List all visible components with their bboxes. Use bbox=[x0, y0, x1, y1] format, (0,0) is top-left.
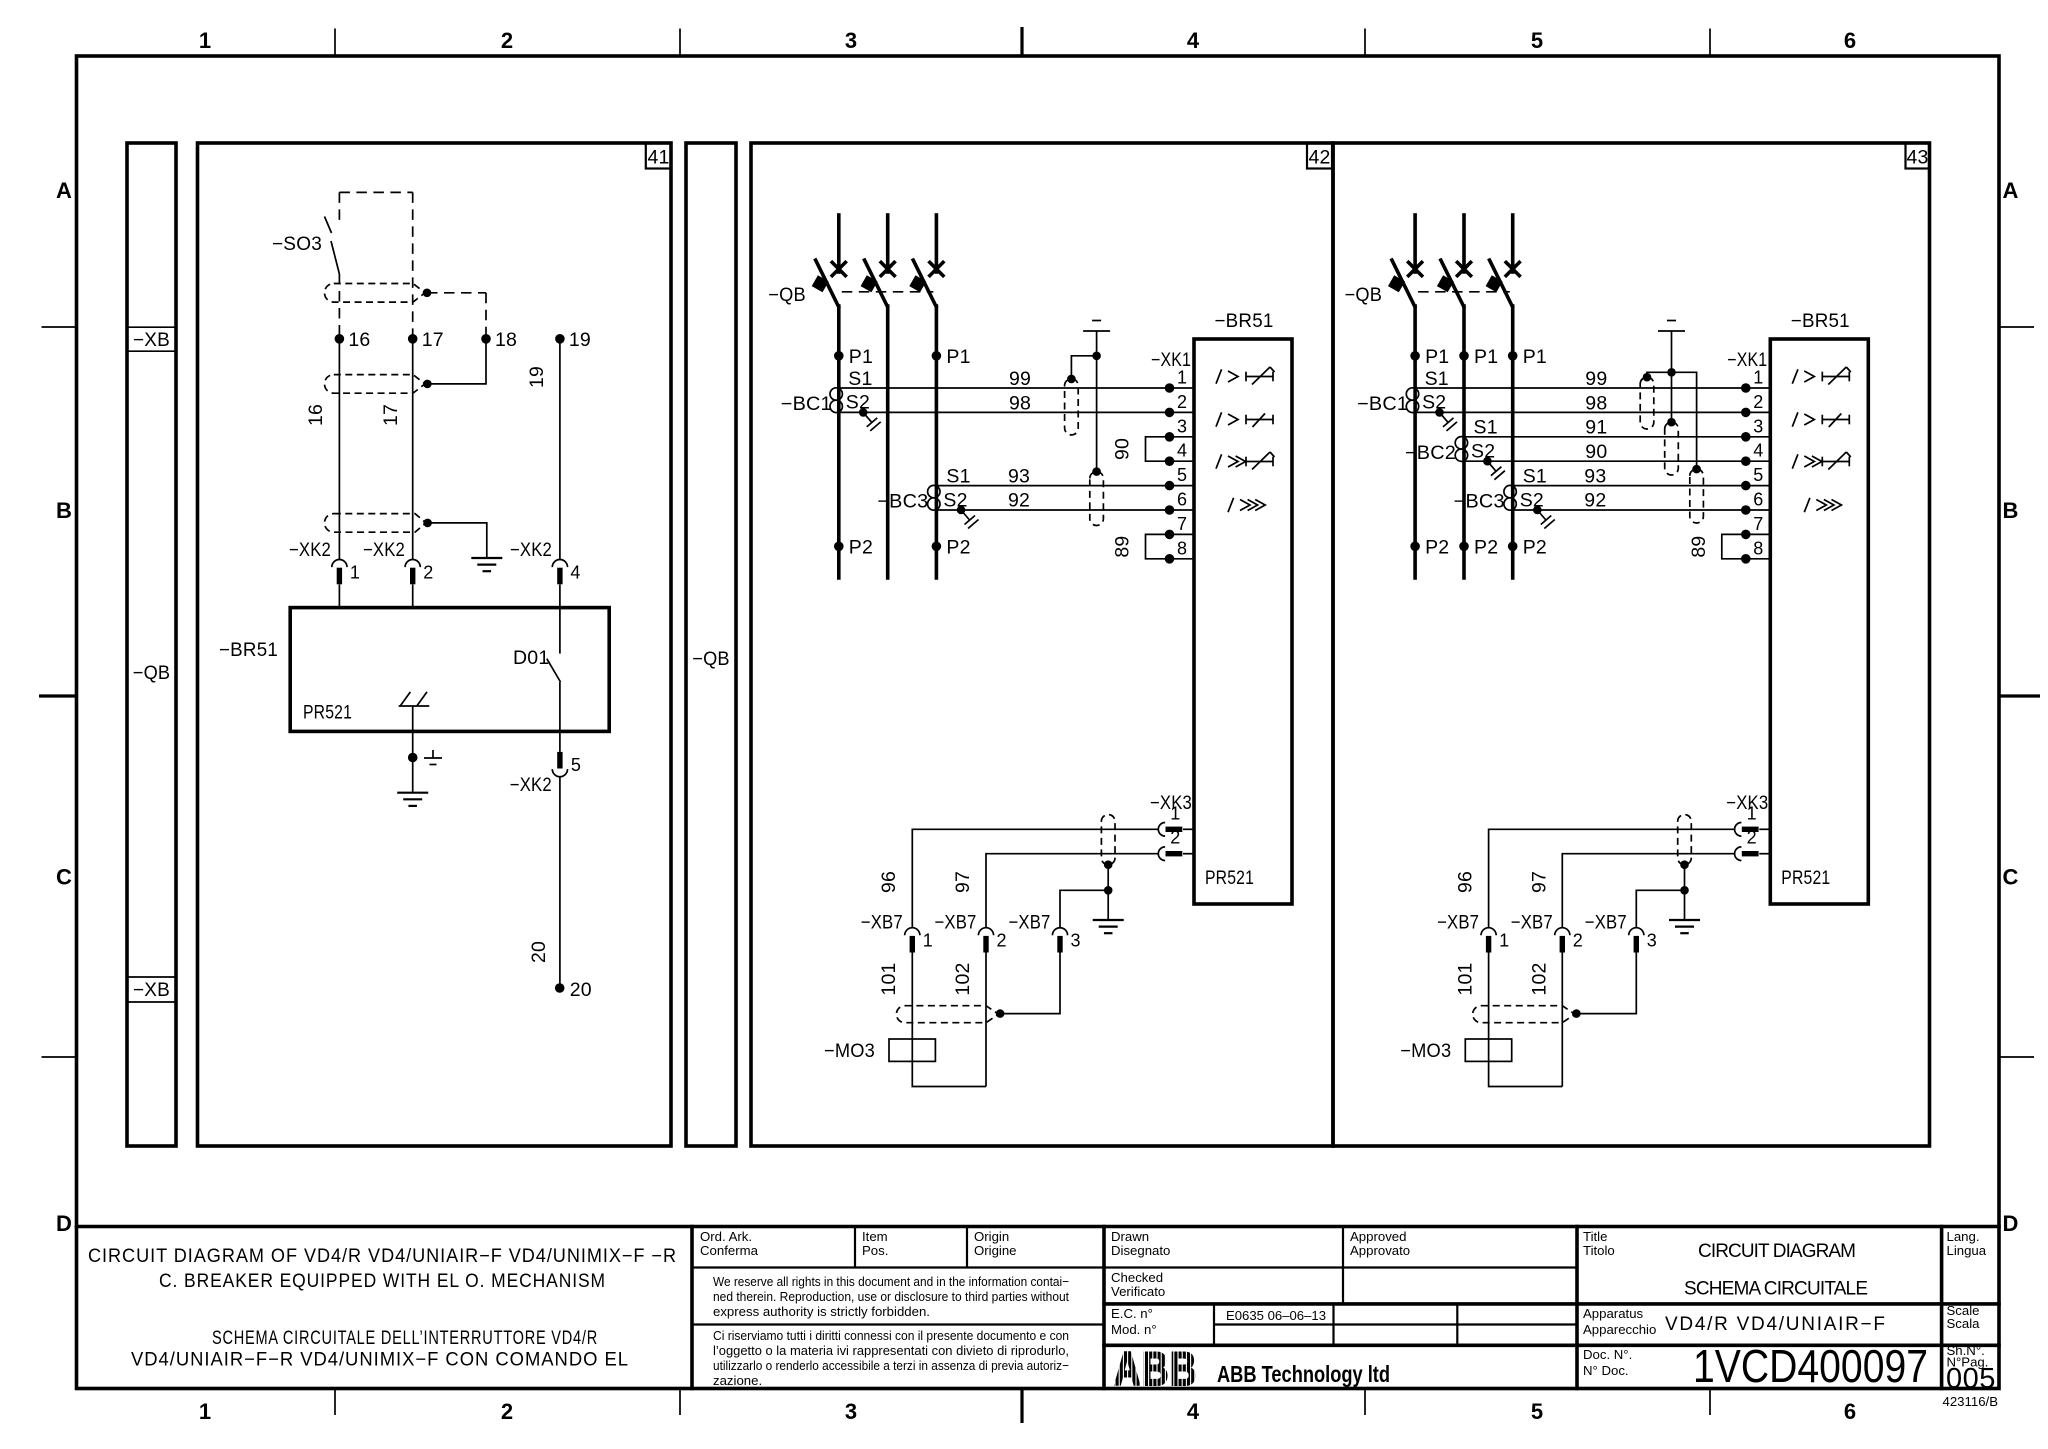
svg-text:Approvato: Approvato bbox=[1350, 1243, 1410, 1258]
title block bbox=[77, 1225, 2000, 1229]
svg-text:102: 102 bbox=[1528, 962, 1550, 995]
wire 16 bbox=[338, 339, 340, 560]
svg-text:E0635 06–06–13: E0635 06–06–13 bbox=[1226, 1308, 1326, 1323]
svg-text:16: 16 bbox=[305, 404, 327, 426]
svg-text:43: 43 bbox=[1906, 147, 1928, 169]
junction on wire 98 with earth mark bbox=[859, 408, 868, 417]
svg-text:6: 6 bbox=[1753, 490, 1763, 510]
earth symbol bbox=[471, 557, 502, 559]
svg-text:005: 005 bbox=[1946, 1363, 1996, 1395]
XK3 pin 1 bbox=[1735, 823, 1742, 837]
XK1 pin 3 bbox=[1746, 436, 1771, 438]
node P2 bbox=[932, 542, 942, 552]
svg-text:SCHEMA CIRCUITALE DELL’INTER: SCHEMA CIRCUITALE DELL’INTERRUTTORE VD4/… bbox=[212, 1328, 598, 1349]
svg-text:ABB Technology ltd: ABB Technology ltd bbox=[1217, 1361, 1390, 1387]
cable screen around 93/92 bbox=[1690, 469, 1704, 523]
frame center tick bottom bbox=[1020, 1389, 1023, 1424]
svg-text:P2: P2 bbox=[849, 537, 873, 559]
svg-text:89: 89 bbox=[1688, 536, 1710, 558]
svg-text:B: B bbox=[56, 498, 72, 523]
svg-text:Origin: Origin bbox=[974, 1229, 1009, 1244]
svg-text:−QB: −QB bbox=[768, 284, 806, 306]
svg-text:P2: P2 bbox=[1425, 537, 1449, 559]
wire 96 (XK3:1 to XB7:1) bbox=[912, 829, 1158, 927]
node P2 bbox=[1459, 542, 1469, 552]
node P1 bbox=[1459, 351, 1469, 361]
junction to XB7:3 bbox=[1104, 886, 1113, 895]
svg-text:P1: P1 bbox=[1523, 346, 1547, 368]
svg-text:D01: D01 bbox=[513, 647, 549, 669]
svg-text:96: 96 bbox=[1454, 871, 1476, 893]
svg-text:5: 5 bbox=[1531, 28, 1543, 53]
svg-text:93: 93 bbox=[1008, 466, 1030, 488]
opening release coil MO3 bbox=[889, 1039, 935, 1061]
earth symbol (screen earthing) bbox=[1658, 330, 1685, 332]
cable screen around 96/97 bbox=[1678, 815, 1692, 865]
earth symbol (screen earthing) bbox=[1083, 330, 1110, 332]
svg-text:E.C. n°: E.C. n° bbox=[1111, 1306, 1153, 1321]
svg-text:3: 3 bbox=[845, 1399, 857, 1424]
wire MO3 to 102 bbox=[912, 1061, 986, 1086]
svg-text:3: 3 bbox=[1071, 931, 1081, 951]
frame tick right y=327 bbox=[1999, 326, 2034, 328]
svg-text:101: 101 bbox=[878, 962, 900, 995]
dashed linkage frame bbox=[339, 191, 412, 193]
cable screen around 99/98 bbox=[1065, 379, 1079, 435]
svg-text:−XB: −XB bbox=[133, 329, 170, 351]
frame of sheet-zone 43 bbox=[1333, 143, 1930, 1146]
breaker pole of QB at x=936.4 bbox=[935, 215, 939, 272]
svg-text:20: 20 bbox=[570, 979, 592, 1001]
cable screen around 101/102 bbox=[896, 1006, 998, 1023]
svg-text:Disegnato: Disegnato bbox=[1111, 1243, 1170, 1258]
svg-text:−BC1: −BC1 bbox=[781, 393, 832, 415]
current transformer BC1 bbox=[1406, 388, 1418, 400]
node P2 bbox=[1508, 542, 1518, 552]
current transformer BC1 bbox=[830, 388, 842, 400]
release/relay box BR51 with PR521 bbox=[290, 608, 609, 732]
svg-text:92: 92 bbox=[1008, 490, 1030, 512]
wire 19 bbox=[559, 339, 561, 560]
svg-text:1VCD400097: 1VCD400097 bbox=[1693, 1340, 1928, 1392]
cable screen around 96/97 bbox=[1101, 815, 1115, 865]
svg-text:1: 1 bbox=[1177, 368, 1187, 388]
node 19 bbox=[555, 334, 565, 344]
XK1 pin 1 bbox=[1170, 387, 1195, 389]
svg-text:4: 4 bbox=[1177, 441, 1187, 461]
mechanical linkage (dashed) bbox=[842, 291, 934, 293]
svg-text:P1: P1 bbox=[1425, 346, 1449, 368]
svg-text:Origine: Origine bbox=[974, 1243, 1017, 1258]
node 17 bbox=[408, 334, 418, 344]
svg-text:S2: S2 bbox=[1471, 441, 1495, 463]
svg-text:Mod. n°: Mod. n° bbox=[1111, 1322, 1157, 1337]
svg-text:1: 1 bbox=[923, 931, 933, 951]
junction on wire 98 with earth mark bbox=[1435, 408, 1444, 417]
wire 99 (BC1 S1 to XK1:1) bbox=[839, 387, 1170, 389]
svg-text:4: 4 bbox=[1187, 1399, 1200, 1424]
svg-text:1: 1 bbox=[1747, 803, 1757, 823]
svg-text:5: 5 bbox=[571, 755, 581, 775]
frame tick left y=1057 bbox=[42, 1056, 77, 1058]
svg-text:−QB: −QB bbox=[692, 648, 730, 670]
wire 101 bbox=[1488, 953, 1490, 1040]
svg-text:6: 6 bbox=[1177, 490, 1187, 510]
svg-text:l’oggetto o la materia ivi: l’oggetto o la materia ivi rappresentati… bbox=[713, 1343, 1069, 1358]
svg-text:Doc. N°.: Doc. N°. bbox=[1583, 1347, 1632, 1362]
svg-text:2: 2 bbox=[997, 931, 1007, 951]
svg-text:ned therein. Reproduction,: ned therein. Reproduction, use or disclo… bbox=[713, 1289, 1069, 1304]
svg-text:7: 7 bbox=[1753, 514, 1763, 534]
svg-text:3: 3 bbox=[1753, 416, 1763, 436]
node P1 bbox=[834, 351, 844, 361]
svg-text:A: A bbox=[56, 178, 72, 203]
svg-text:−XK2: −XK2 bbox=[510, 774, 552, 796]
mechanical coupling loop (middle) bbox=[325, 375, 426, 394]
node P1 bbox=[1508, 351, 1518, 361]
PE junction below BR51 bbox=[408, 753, 418, 763]
terminal XK2 pin 5 bbox=[557, 752, 562, 769]
busbar column QB (middle) bbox=[686, 143, 736, 1146]
busbar column XB/QB bbox=[127, 143, 176, 1146]
svg-text:P2: P2 bbox=[1523, 537, 1547, 559]
svg-text:ABB: ABB bbox=[1114, 1342, 1198, 1395]
svg-text:5: 5 bbox=[1531, 1399, 1543, 1424]
svg-text:423116/B: 423116/B bbox=[1943, 1394, 1999, 1409]
svg-text:PR521: PR521 bbox=[303, 702, 352, 724]
svg-text:Apparecchio: Apparecchio bbox=[1583, 1322, 1656, 1337]
XK3 pin 2 bbox=[1158, 847, 1165, 861]
svg-text:Verificato: Verificato bbox=[1111, 1284, 1165, 1299]
XK1 pin 7 bbox=[1746, 533, 1771, 535]
frame tick bottom x=1365 bbox=[1364, 1389, 1366, 1416]
protection relay BR51 (PR521) bbox=[1770, 339, 1868, 904]
svg-text:Apparatus: Apparatus bbox=[1583, 1306, 1644, 1321]
svg-text:−QB: −QB bbox=[1345, 284, 1383, 306]
svg-text:−QB: −QB bbox=[133, 662, 171, 684]
wire 90 (BC2 S2 to XK1:4) bbox=[1464, 460, 1746, 462]
svg-text:S1: S1 bbox=[1523, 466, 1547, 488]
svg-text:2: 2 bbox=[1170, 828, 1180, 848]
frame of sheet-zone 42 bbox=[751, 143, 1333, 1146]
svg-text:17: 17 bbox=[380, 404, 402, 426]
XK1 pin 2 bbox=[1170, 411, 1195, 413]
svg-text:97: 97 bbox=[952, 871, 974, 893]
svg-text:−XB: −XB bbox=[133, 979, 170, 1001]
XK3 pin 2 bbox=[1735, 847, 1742, 861]
svg-text:8: 8 bbox=[1177, 538, 1187, 558]
XK1 pin 2 bbox=[1746, 411, 1771, 413]
protection relay BR51 (PR521) bbox=[1194, 339, 1292, 904]
frame of sheet-zone 41 bbox=[198, 143, 672, 1146]
svg-text:20: 20 bbox=[528, 941, 550, 963]
svg-text:Lingua: Lingua bbox=[1947, 1243, 1987, 1258]
svg-text:A: A bbox=[2003, 178, 2019, 203]
svg-text:−SO3: −SO3 bbox=[272, 233, 322, 255]
breaker pole of QB at x=1415.1 bbox=[1413, 215, 1417, 272]
svg-text:−XB7: −XB7 bbox=[935, 912, 977, 934]
svg-text:S1: S1 bbox=[1474, 417, 1498, 439]
jumper XK1 3-4, wire 90 bbox=[1146, 437, 1170, 461]
svg-text:90: 90 bbox=[1112, 438, 1134, 460]
svg-text:1: 1 bbox=[350, 563, 360, 583]
svg-text:1: 1 bbox=[1499, 931, 1509, 951]
node 20 bbox=[555, 983, 565, 993]
cable screen around 93/92 bbox=[1090, 472, 1104, 526]
XK1 pin 3 bbox=[1170, 436, 1195, 438]
svg-text:S1: S1 bbox=[946, 466, 970, 488]
cell XB upper bbox=[127, 326, 176, 328]
svg-text:S1: S1 bbox=[1425, 368, 1449, 390]
svg-text:−BR51: −BR51 bbox=[1215, 310, 1274, 332]
breaker pole of QB at x=1512.6999999999998 bbox=[1511, 215, 1515, 272]
wire 97 (XK3:2 to XB7:2) bbox=[986, 854, 1158, 928]
breaker pole of QB at x=838.8 bbox=[837, 215, 841, 272]
svg-text:P2: P2 bbox=[1474, 537, 1498, 559]
svg-text:−MO3: −MO3 bbox=[1400, 1040, 1451, 1062]
svg-text:Pos.: Pos. bbox=[862, 1243, 888, 1258]
svg-text:P1: P1 bbox=[946, 346, 970, 368]
svg-text:42: 42 bbox=[1308, 147, 1330, 169]
svg-text:97: 97 bbox=[1528, 871, 1550, 893]
svg-text:−BC3: −BC3 bbox=[877, 491, 928, 513]
svg-text:41: 41 bbox=[647, 147, 669, 169]
svg-text:5: 5 bbox=[1753, 465, 1763, 485]
svg-text:−XB7: −XB7 bbox=[861, 912, 903, 934]
svg-text:zazione.: zazione. bbox=[713, 1373, 762, 1388]
frame tick top x=1365 bbox=[1364, 29, 1366, 57]
svg-text:Checked: Checked bbox=[1111, 1270, 1163, 1285]
svg-text:Titolo: Titolo bbox=[1583, 1243, 1615, 1258]
frame center tick right bbox=[1999, 694, 2040, 697]
svg-text:19: 19 bbox=[569, 329, 591, 351]
svg-text:2: 2 bbox=[501, 1399, 513, 1424]
node P2 bbox=[834, 542, 844, 552]
svg-text:−XK2: −XK2 bbox=[510, 539, 552, 561]
XK1 pin 8 bbox=[1170, 558, 1195, 560]
mechanical coupling loop (lower) bbox=[324, 514, 426, 533]
svg-text:−XK2: −XK2 bbox=[289, 539, 331, 561]
node P2 bbox=[1410, 542, 1420, 552]
wire 92 (BC3 S2 to XK1:6) bbox=[936, 509, 1169, 511]
svg-text:CIRCUIT DIAGRAM OF VD4/R V: CIRCUIT DIAGRAM OF VD4/R VD4/UNIAIR−F VD… bbox=[88, 1246, 677, 1267]
svg-text:2: 2 bbox=[1753, 392, 1763, 412]
junction on wire 92 with earth mark bbox=[1533, 506, 1542, 515]
svg-text:Approved: Approved bbox=[1350, 1229, 1406, 1244]
svg-text:98: 98 bbox=[1009, 393, 1031, 415]
svg-text:1: 1 bbox=[199, 1399, 211, 1424]
svg-text:Lang.: Lang. bbox=[1947, 1229, 1980, 1244]
svg-text:P1: P1 bbox=[849, 346, 873, 368]
XK1 pin 6 bbox=[1746, 509, 1771, 511]
wire 91 (BC2 S1 to XK1:3) bbox=[1464, 436, 1746, 438]
svg-text:−XB7: −XB7 bbox=[1585, 912, 1627, 934]
svg-text:CIRCUIT DIAGRAM: CIRCUIT DIAGRAM bbox=[1698, 1241, 1857, 1262]
svg-text:1: 1 bbox=[199, 28, 211, 53]
svg-text:−BC1: −BC1 bbox=[1357, 393, 1408, 415]
svg-text:1: 1 bbox=[1753, 368, 1763, 388]
XK1 pin 5 bbox=[1746, 485, 1771, 487]
svg-text:S1: S1 bbox=[848, 368, 872, 390]
svg-text:8: 8 bbox=[1753, 538, 1763, 558]
svg-text:4: 4 bbox=[1753, 441, 1763, 461]
frame tick top x=1710 bbox=[1709, 29, 1711, 57]
screen bus bbox=[1647, 372, 1697, 469]
svg-text:99: 99 bbox=[1585, 368, 1607, 390]
svg-text:−MO3: −MO3 bbox=[824, 1040, 875, 1062]
svg-text:D: D bbox=[56, 1211, 72, 1236]
junction to XB7:3 bbox=[1680, 886, 1689, 895]
svg-text:2: 2 bbox=[1573, 931, 1583, 951]
svg-text:Ord. Ark.: Ord. Ark. bbox=[700, 1229, 752, 1244]
svg-text:express authority is strict: express authority is strictly forbidden. bbox=[713, 1304, 930, 1319]
svg-text:We reserve all rights in: We reserve all rights in this document a… bbox=[713, 1274, 1069, 1289]
wire 17 bbox=[412, 339, 414, 560]
svg-text:−BR51: −BR51 bbox=[219, 639, 278, 661]
wire 98 (BC1 S2 to XK1:2) bbox=[1415, 411, 1746, 413]
XK1 pin 1 bbox=[1746, 387, 1771, 389]
svg-text:89: 89 bbox=[1112, 536, 1134, 558]
mechanical linkage (dashed) bbox=[1418, 291, 1510, 293]
jumper XK1 7-8, wire 89 bbox=[1722, 534, 1746, 558]
XK1 pin 7 bbox=[1170, 533, 1195, 535]
screen drain to XB7:3 bbox=[1000, 953, 1060, 1014]
cable screen around 99/98 bbox=[1640, 377, 1654, 429]
current transformer BC3 bbox=[1504, 485, 1516, 497]
wire 93 (BC3 S1 to XK1:5) bbox=[936, 485, 1169, 487]
wire 93 (BC3 S1 to XK1:5) bbox=[1513, 485, 1746, 487]
svg-text:98: 98 bbox=[1585, 393, 1607, 415]
svg-text:Drawn: Drawn bbox=[1111, 1229, 1149, 1244]
frame tick bottom x=335 bbox=[334, 1389, 336, 1416]
svg-text:Scala: Scala bbox=[1947, 1316, 1981, 1331]
earth symbol bbox=[1684, 890, 1686, 920]
svg-text:101: 101 bbox=[1454, 962, 1476, 995]
svg-text:Ci riserviamo tutti i diri: Ci riserviamo tutti i diritti connessi c… bbox=[713, 1328, 1069, 1343]
svg-text:SCHEMA CIRCUITALE: SCHEMA CIRCUITALE bbox=[1684, 1279, 1869, 1300]
node P1 bbox=[1410, 351, 1420, 361]
svg-text:4: 4 bbox=[1187, 28, 1200, 53]
frame tick right y=1057 bbox=[1999, 1056, 2034, 1058]
earth symbol bbox=[412, 758, 414, 793]
svg-text:VD4/UNIAIR−F−R VD4/UNIMIX−F: VD4/UNIAIR−F−R VD4/UNIMIX−F CON COMANDO … bbox=[131, 1350, 629, 1371]
frame tick top x=680 bbox=[679, 29, 681, 57]
svg-text:Conferma: Conferma bbox=[700, 1243, 759, 1258]
svg-text:93: 93 bbox=[1584, 466, 1606, 488]
cell XB lower bbox=[127, 976, 176, 978]
earth symbol bbox=[1107, 890, 1109, 920]
wire 102 bbox=[985, 953, 987, 1087]
svg-text:99: 99 bbox=[1009, 368, 1031, 390]
svg-text:96: 96 bbox=[878, 871, 900, 893]
frame tick bottom x=680 bbox=[679, 1389, 681, 1416]
svg-text:P1: P1 bbox=[1474, 346, 1498, 368]
mechanical coupling loop (upper) bbox=[325, 284, 425, 303]
screen drain to XB7:3 bbox=[1576, 953, 1636, 1014]
opening release coil MO3 bbox=[1465, 1039, 1511, 1061]
wire MO3 to 102 bbox=[1489, 1061, 1563, 1086]
svg-text:Title: Title bbox=[1583, 1229, 1607, 1244]
wire 20 bbox=[559, 778, 561, 989]
svg-text:17: 17 bbox=[422, 329, 444, 351]
svg-text:2: 2 bbox=[423, 563, 433, 583]
breaker pole of QB at x=1464.0 bbox=[1462, 215, 1466, 272]
wire 97 (XK3:2 to XB7:2) bbox=[1562, 854, 1734, 928]
svg-text:−BR51: −BR51 bbox=[1791, 310, 1850, 332]
junction on wire 92 with earth mark bbox=[957, 506, 966, 515]
svg-text:5: 5 bbox=[1177, 465, 1187, 485]
node 16 bbox=[335, 334, 345, 344]
cable screen around 101/102 bbox=[1473, 1006, 1575, 1023]
svg-text:18: 18 bbox=[495, 329, 517, 351]
svg-text:C. BREAKER EQUIPPED WITH E: C. BREAKER EQUIPPED WITH EL O. MECHANISM bbox=[159, 1271, 606, 1292]
dashed wire to node 18 bbox=[427, 292, 486, 294]
frame tick bottom x=1710 bbox=[1709, 1389, 1711, 1416]
svg-text:3: 3 bbox=[1177, 416, 1187, 436]
node 18 bbox=[481, 334, 491, 344]
svg-text:4: 4 bbox=[570, 563, 580, 583]
svg-text:C: C bbox=[2003, 865, 2019, 890]
svg-text:utilizzarlo o renderlo acce: utilizzarlo o renderlo accessibile a ter… bbox=[713, 1358, 1069, 1373]
svg-text:7: 7 bbox=[1177, 514, 1187, 534]
svg-text:Item: Item bbox=[862, 1229, 888, 1244]
wire 101 bbox=[911, 953, 913, 1040]
XK1 pin 5 bbox=[1170, 485, 1195, 487]
svg-text:1: 1 bbox=[1170, 803, 1180, 823]
screen drain wire bbox=[1071, 356, 1096, 379]
breaker pole of QB at x=887.7 bbox=[886, 215, 890, 272]
svg-text:2: 2 bbox=[1177, 392, 1187, 412]
junction on wire 90 with earth mark bbox=[1483, 457, 1492, 466]
XK1 pin 6 bbox=[1170, 509, 1195, 511]
svg-text:90: 90 bbox=[1585, 441, 1607, 463]
svg-text:−XB7: −XB7 bbox=[1437, 912, 1479, 934]
cable screen around 91/90 bbox=[1665, 422, 1679, 475]
current transformer BC3 bbox=[928, 485, 940, 497]
XK1 pin 8 bbox=[1746, 558, 1771, 560]
svg-text:16: 16 bbox=[348, 329, 370, 351]
frame center tick top bbox=[1020, 27, 1023, 56]
svg-text:D: D bbox=[2003, 1211, 2019, 1236]
svg-text:3: 3 bbox=[845, 28, 857, 53]
wire 102 bbox=[1561, 953, 1563, 1087]
svg-text:102: 102 bbox=[952, 962, 974, 995]
jumper XK1 7-8, wire 89 bbox=[1146, 534, 1170, 558]
XK3 pin 1 bbox=[1158, 823, 1165, 837]
frame center tick left bbox=[39, 694, 77, 697]
wire 98 (BC1 S2 to XK1:2) bbox=[839, 411, 1170, 413]
svg-text:VD4/R VD4/UNIAIR−F: VD4/R VD4/UNIAIR−F bbox=[1665, 1314, 1886, 1335]
current transformer BC2 bbox=[1455, 437, 1467, 449]
wires into BR51 bbox=[338, 585, 340, 608]
svg-text:−BC2: −BC2 bbox=[1405, 442, 1456, 464]
svg-text:PR521: PR521 bbox=[1205, 867, 1254, 889]
wire from loop to earth bbox=[428, 523, 487, 558]
svg-text:6: 6 bbox=[1844, 28, 1856, 53]
wire 92 (BC3 S2 to XK1:6) bbox=[1513, 509, 1746, 511]
svg-text:91: 91 bbox=[1585, 417, 1607, 439]
frame tick left y=327 bbox=[42, 326, 77, 328]
svg-text:2: 2 bbox=[501, 28, 513, 53]
XK1 pin 4 bbox=[1170, 460, 1195, 462]
svg-text:3: 3 bbox=[1647, 931, 1657, 951]
svg-text:−XB7: −XB7 bbox=[1511, 912, 1553, 934]
trip coil symbol bbox=[399, 705, 430, 707]
node P1 bbox=[932, 351, 942, 361]
wire from loop to node 18 bbox=[427, 339, 486, 384]
svg-text:PR521: PR521 bbox=[1781, 867, 1830, 889]
wire 96 (XK3:1 to XB7:1) bbox=[1489, 829, 1735, 927]
